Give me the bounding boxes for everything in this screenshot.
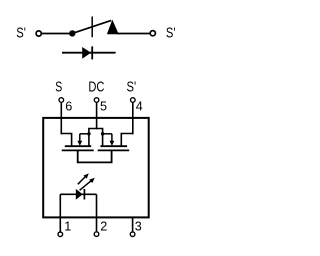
wire drain jog right (121, 134, 133, 147)
junction (101, 132, 105, 136)
LED D2 (76, 189, 85, 200)
svg-text:S': S' (127, 80, 137, 96)
pin 6 lead (60, 103, 62, 135)
wire gate bus (89, 129, 103, 147)
svg-text:4: 4 (136, 100, 143, 114)
wire (60, 193, 96, 195)
svg-text:S: S (55, 80, 62, 96)
pin 6 terminal (59, 98, 64, 103)
pin 4 terminal (131, 98, 136, 103)
svg-text:DC: DC (88, 80, 104, 96)
switch contact arrow (107, 20, 119, 35)
LED emission arrow upper (78, 173, 89, 184)
pin 3 terminal (130, 232, 135, 237)
transistor Q1 channel (65, 145, 91, 147)
wire gate link (78, 150, 112, 162)
transistor Q1 gate (62, 149, 94, 151)
wire body branch left (80, 133, 89, 135)
pin 3 lead (132, 217, 134, 231)
pin 5 terminal (94, 98, 99, 103)
svg-text:S': S' (16, 26, 26, 42)
svg-text:3: 3 (135, 219, 142, 233)
wire anode drop (59, 194, 61, 217)
terminal S' left (36, 31, 41, 36)
junction (69, 30, 75, 36)
wire (42, 33, 73, 35)
svg-text:S': S' (166, 26, 176, 42)
wire (117, 33, 150, 35)
package outline (43, 118, 149, 217)
pin 2 lead (96, 217, 98, 231)
switch contact arm (72, 20, 111, 33)
pin 1 terminal (58, 232, 63, 237)
svg-text:6: 6 (65, 100, 72, 114)
wire cathode drop (96, 194, 98, 217)
LED emission arrow lower (80, 178, 95, 191)
transistor Q1 body arrow (77, 134, 82, 146)
diode D1 (82, 46, 92, 59)
pin 2 terminal (94, 232, 99, 237)
pin 4 lead (132, 103, 134, 135)
wire (62, 52, 116, 54)
switch actuator tick (91, 17, 93, 38)
svg-text:1: 1 (64, 219, 71, 233)
pin 1 lead (59, 217, 61, 231)
transistor Q2 body arrow (110, 134, 115, 146)
transistor Q2 gate (98, 149, 130, 151)
svg-text:5: 5 (100, 100, 107, 114)
pin 5 lead (96, 103, 98, 130)
transistor Q2 channel (100, 145, 127, 147)
terminal S' right (150, 31, 155, 36)
wire drain jog left (61, 134, 71, 147)
wire body branch right (103, 133, 112, 135)
junction (87, 132, 91, 136)
svg-text:2: 2 (100, 219, 107, 233)
